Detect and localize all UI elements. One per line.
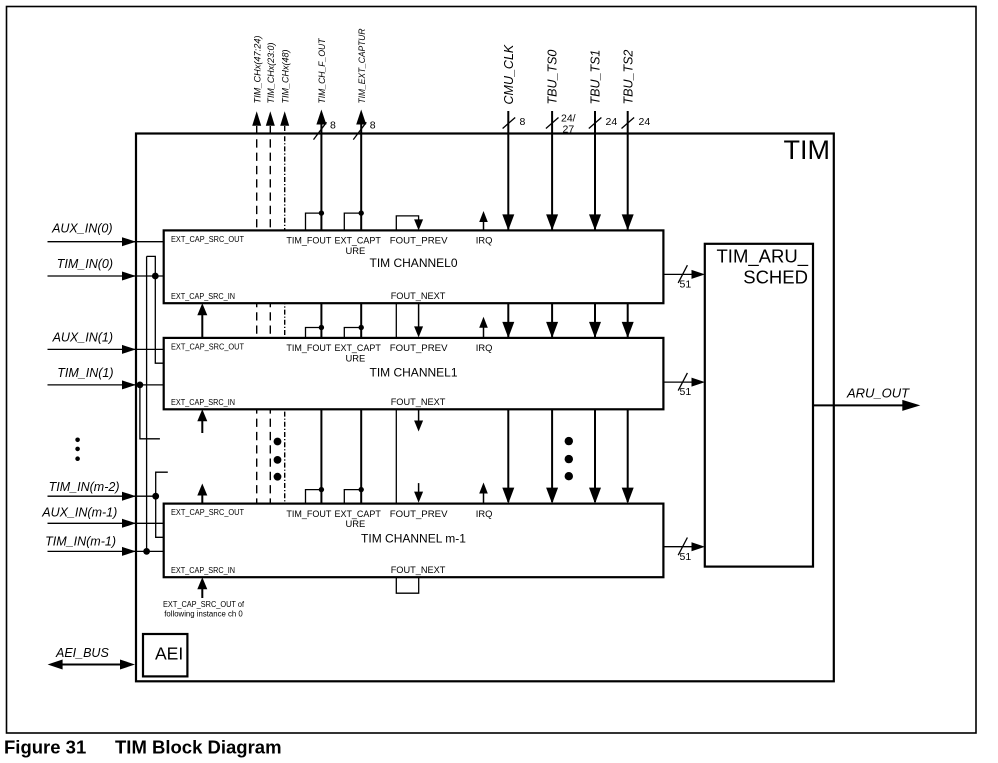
ellipsis dots left-middle column: [274, 438, 282, 481]
arrowheads TBU_TS1 into channel tops: [589, 214, 601, 503]
bus slash 24 on TBU_TS1: [589, 116, 618, 129]
wire vertical chain TIM_IN(0) to TIM_IN(m-1): [146, 256, 148, 551]
block TIM outer box: [136, 134, 834, 682]
svg-text:AUX_IN(1): AUX_IN(1): [52, 330, 113, 344]
svg-text:following instance ch 0: following instance ch 0: [164, 610, 243, 619]
wire TIM_IN(m-2) down into channel m-1: [156, 496, 164, 537]
wire EXT_CAP_SRC into m-1 from following instance arrow up: [197, 577, 207, 598]
svg-text:URE: URE: [346, 245, 366, 256]
junction dot TIM_IN(1): [137, 382, 144, 389]
block TIM CHANNEL1: [164, 338, 664, 409]
svg-text:51: 51: [680, 386, 692, 398]
svg-text:IRQ: IRQ: [476, 342, 493, 353]
svg-text:TBU_TS0: TBU_TS0: [546, 50, 560, 105]
svg-text:TIM_EXT_CAPTUR: TIM_EXT_CAPTUR: [357, 28, 368, 103]
svg-text:AUX_IN(m-1): AUX_IN(m-1): [41, 506, 117, 520]
svg-text:FOUT_NEXT: FOUT_NEXT: [391, 564, 446, 575]
wire TIM_IN(0) bracket up-left: [147, 256, 156, 276]
svg-text:Figure 31: Figure 31: [4, 737, 86, 758]
svg-text:TIM_CHx(47:24): TIM_CHx(47:24): [253, 36, 264, 104]
svg-text:FOUT_NEXT: FOUT_NEXT: [391, 290, 446, 301]
svg-text:TBU_TS1: TBU_TS1: [589, 50, 603, 105]
svg-text:IRQ: IRQ: [476, 235, 493, 246]
bus arrow 51 channel0 to TIM_ARU_SCHED: [663, 265, 705, 290]
junction dot TIM_IN(0): [152, 273, 159, 280]
m-1 FOUT_NEXT loopback notch: [396, 577, 418, 593]
wire EXT_CAP_SRC into ch1 from below arrow up: [197, 409, 207, 433]
svg-text:51: 51: [680, 551, 692, 563]
input TIM_IN(m-1): [45, 535, 164, 556]
channel0 TIM_FOUT stub bracket: [306, 210, 325, 230]
wire ARU_OUT with arrow: [813, 385, 920, 411]
wire TIM_IN(0) down into channel1: [155, 276, 163, 363]
wire EXT_CAP_SRC m-1 up to hidden channel arrow: [197, 484, 207, 504]
svg-text:EXT_CAP_SRC_IN: EXT_CAP_SRC_IN: [171, 566, 235, 575]
channel1 TIM_FOUT stub bracket: [306, 325, 325, 338]
wire FOUT_PREV into m-1 from hidden channel arrow down: [414, 483, 423, 503]
svg-text:FOUT_NEXT: FOUT_NEXT: [391, 396, 446, 407]
svg-text:TIM CHANNEL1: TIM CHANNEL1: [369, 365, 457, 379]
wire TIM_CHx(23:0) vertical bus (dashed): [266, 43, 277, 504]
svg-text:AEI: AEI: [155, 643, 183, 663]
svg-text:EXT_CAP_SRC_OUT: EXT_CAP_SRC_OUT: [171, 235, 244, 244]
svg-text:TIM_IN(m-1): TIM_IN(m-1): [45, 535, 116, 549]
junction dot TIM_IN(m-2): [152, 493, 159, 500]
bus slash 24 on TBU_TS2: [622, 116, 651, 129]
arrowheads TBU_TS2 into channel tops: [622, 214, 634, 503]
channel0 EXT_CAPTURE stub bracket: [344, 210, 364, 230]
svg-text:AUX_IN(0): AUX_IN(0): [51, 222, 112, 236]
svg-text:EXT_CAP_SRC_IN: EXT_CAP_SRC_IN: [171, 398, 235, 407]
wire EXT_CAP_SRC ch1 to ch0 arrow up: [197, 303, 207, 338]
block TIM CHANNEL m-1: [164, 504, 664, 578]
svg-text:TIM_IN(m-2): TIM_IN(m-2): [49, 480, 120, 494]
svg-text:TIM CHANNEL m-1: TIM CHANNEL m-1: [361, 532, 466, 546]
svg-text:24: 24: [606, 116, 618, 128]
wire TIM_CH_F_OUT vertical: [316, 37, 328, 503]
wire FOUT channel0 to channel1: [395, 303, 397, 338]
svg-text:TIM_IN(1): TIM_IN(1): [57, 366, 113, 380]
svg-text:8: 8: [330, 119, 336, 131]
m-1 TIM_FOUT stub bracket: [306, 487, 325, 504]
svg-text:URE: URE: [346, 352, 366, 363]
bus slash 8 on TIM_CH_F_OUT: [314, 119, 337, 139]
ellipsis dots right-middle column: [565, 437, 573, 481]
svg-text:TIM_CH_F_OUT: TIM_CH_F_OUT: [317, 37, 328, 103]
channel0 pin labels: [171, 235, 492, 301]
channel1 pin labels: [171, 342, 492, 407]
block TIM_ARU_SCHED: [705, 244, 813, 567]
svg-text:TIM_IN(0): TIM_IN(0): [57, 257, 113, 271]
svg-text:AEI_BUS: AEI_BUS: [55, 646, 109, 660]
svg-text:URE: URE: [346, 518, 366, 529]
svg-text:FOUT_PREV: FOUT_PREV: [390, 508, 448, 519]
input AUX_IN(m-1): [41, 506, 163, 528]
channel m-1 pin labels: [171, 508, 492, 575]
m-1 EXT_CAPTURE stub bracket: [344, 487, 364, 504]
svg-text:EXT_CAP_SRC_OUT of: EXT_CAP_SRC_OUT of: [163, 600, 245, 609]
input AUX_IN(0): [48, 222, 164, 247]
svg-text:TIM_FOUT: TIM_FOUT: [286, 235, 331, 246]
wire TBU_TS0 vertical: [546, 50, 560, 502]
bus arrow 51 channel1 to TIM_ARU_SCHED: [663, 373, 705, 398]
wire FOUT ch1 down to m-1: [395, 409, 397, 503]
wire TIM_CHx(47:24) vertical bus (dashed): [252, 36, 263, 504]
wire TBU_TS1 vertical: [589, 50, 603, 502]
channel0 IRQ arrow up: [479, 211, 488, 230]
svg-text:FOUT_PREV: FOUT_PREV: [390, 342, 448, 353]
input TIM_IN(1): [48, 366, 164, 390]
svg-text:51: 51: [680, 279, 692, 291]
wire TBU_TS2 vertical: [621, 50, 635, 502]
svg-text:FOUT_PREV: FOUT_PREV: [390, 235, 448, 246]
input AUX_IN(1): [48, 330, 164, 354]
svg-text:TIM: TIM: [784, 135, 831, 165]
wire FOUT_NEXT ch1 arrow down (to hidden channel): [414, 409, 423, 431]
svg-text:TIM_FOUT: TIM_FOUT: [286, 342, 331, 353]
ellipsis dots left inputs: [75, 438, 80, 462]
svg-text:TIM_CHx(23:0): TIM_CHx(23:0): [266, 43, 277, 104]
input TIM_IN(0): [48, 257, 164, 281]
wire FOUT_NEXT ch0 to FOUT_PREV ch1 arrow: [414, 303, 423, 337]
wire TIM_IN(1) down jog (to hidden channels): [140, 385, 160, 439]
junction dot TIM_IN(m-1): [143, 548, 150, 555]
svg-text:8: 8: [370, 119, 376, 131]
block TIM CHANNEL0: [164, 230, 664, 303]
wire TIM_IN(m-2) bracket up (to hidden channel): [156, 472, 168, 496]
svg-text:24: 24: [639, 116, 651, 128]
label EXT_CAP_SRC_OUT of following instance ch 0: [163, 600, 245, 619]
bus slash 8 on CMU_CLK: [503, 116, 526, 129]
channel0 FOUT_PREV loopback bracket with arrow: [396, 216, 423, 231]
svg-text:EXT_CAP_SRC_IN: EXT_CAP_SRC_IN: [171, 292, 235, 301]
channel1 EXT_CAPTURE stub bracket: [344, 325, 364, 338]
arrowheads TBU_TS0 into channel tops: [546, 214, 558, 503]
svg-text:TIM_CHx(48): TIM_CHx(48): [281, 50, 292, 104]
svg-text:CMU_CLK: CMU_CLK: [502, 44, 516, 104]
svg-text:IRQ: IRQ: [476, 508, 493, 519]
label TIM_ARU_SCHED: [717, 246, 809, 288]
svg-text:TIM Block Diagram: TIM Block Diagram: [115, 737, 282, 758]
input TIM_IN(m-2): [48, 480, 156, 501]
bus slash 8 on TIM_EXT_CAPTUR: [353, 119, 376, 139]
wire TIM_EXT_CAPTUR vertical: [356, 28, 368, 503]
wire CMU_CLK vertical: [502, 44, 516, 502]
svg-text:TIM CHANNEL0: TIM CHANNEL0: [369, 256, 457, 270]
svg-text:ARU_OUT: ARU_OUT: [846, 385, 910, 400]
arrowheads CMU_CLK into channel tops: [502, 214, 514, 503]
bus slash 24/27 on TBU_TS0: [546, 113, 576, 136]
bus arrow 51 channel m-1 to TIM_ARU_SCHED: [663, 538, 705, 563]
caption Figure 31 TIM Block Diagram: [4, 737, 282, 758]
wire TIM_CHx(48) vertical bus (dash-dot): [280, 50, 291, 504]
channel1 IRQ arrow up: [479, 317, 488, 338]
svg-text:EXT_CAP_SRC_OUT: EXT_CAP_SRC_OUT: [171, 508, 244, 517]
svg-text:EXT_CAP_SRC_OUT: EXT_CAP_SRC_OUT: [171, 343, 244, 352]
m-1 IRQ arrow up: [479, 483, 488, 504]
svg-text:TIM_FOUT: TIM_FOUT: [286, 508, 331, 519]
svg-text:TBU_TS2: TBU_TS2: [621, 50, 635, 105]
svg-text:8: 8: [520, 116, 526, 128]
svg-text:SCHED: SCHED: [743, 267, 808, 288]
svg-text:TIM_ARU_: TIM_ARU_: [717, 246, 809, 268]
wire AEI_BUS double arrow: [48, 646, 135, 669]
block AEI: [143, 634, 187, 676]
